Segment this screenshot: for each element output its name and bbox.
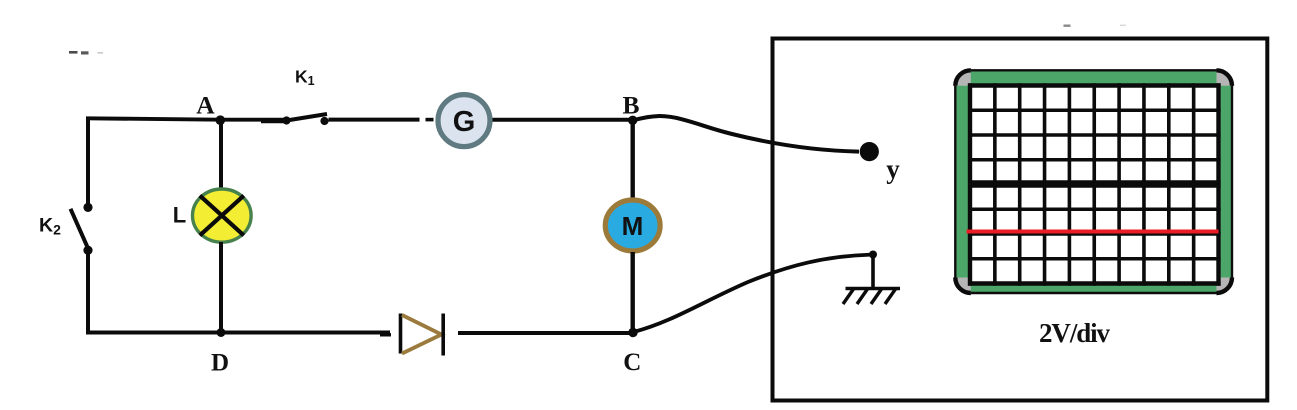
motor M body: [605, 200, 660, 251]
diode triangle: [402, 315, 442, 354]
bezel gray corner bottom-left: [955, 278, 971, 294]
wire K1 to G gap: [329, 118, 420, 122]
wire C to ground terminal: [634, 255, 872, 332]
scope trace red line: [967, 229, 1219, 233]
svg-text:K1: K1: [295, 66, 315, 88]
ground hatch 4: [885, 289, 896, 304]
node C dot: [628, 328, 637, 337]
bezel corner arc top-right: [1217, 70, 1233, 86]
bezel gray corner bottom-right: [1217, 278, 1233, 294]
bezel gray corner top-left: [955, 70, 971, 86]
lamp L body: [193, 189, 252, 242]
svg-text:M: M: [622, 211, 644, 241]
wire dash before G: [426, 118, 434, 122]
bezel gray corner top-right: [1217, 70, 1233, 86]
lamp L cross line 2: [200, 196, 244, 236]
svg-text:D: D: [211, 349, 229, 376]
wire diode to C: [458, 331, 634, 335]
switch K1 lever: [287, 114, 328, 121]
wire overlap blob left of K1: [261, 120, 284, 123]
node D dot: [217, 328, 226, 337]
svg-text:C: C: [623, 349, 641, 376]
switch K1 right dot: [320, 117, 328, 125]
bezel corner arc bottom-right: [1217, 278, 1233, 294]
svg-text:K2: K2: [39, 214, 61, 237]
wire B to y terminal: [633, 116, 859, 152]
galvanometer G: [438, 95, 490, 147]
scope screen bezel (green with gray corners): [955, 70, 1232, 293]
wire lamp down to D: [219, 242, 223, 334]
bezel corner arc bottom-left: [955, 278, 971, 294]
oscilloscope box: [773, 39, 1268, 401]
wire motor down to C: [631, 252, 635, 334]
svg-text:A: A: [196, 90, 215, 119]
wire G to B: [493, 118, 635, 122]
ground stem: [871, 255, 875, 289]
ground hatch 1: [843, 289, 854, 304]
wire stub blob left of diode: [380, 333, 391, 336]
wire bottom: left corner to diode: [86, 331, 390, 335]
switch K2 bottom dot: [83, 246, 92, 255]
ground terminal dot: [869, 251, 877, 259]
screen grid lines: [968, 83, 1221, 285]
wire A down to lamp: [219, 120, 223, 189]
node B dot: [628, 116, 637, 125]
terminal y: [860, 142, 879, 161]
svg-text:G: G: [453, 106, 476, 138]
diode left bar: [399, 314, 403, 354]
svg-text:L: L: [173, 202, 186, 227]
wire B down to motor: [631, 120, 635, 199]
wire left vertical upper: [86, 117, 90, 207]
wire top: A-left corner to K1: [86, 118, 284, 119]
diode cathode bar: [441, 314, 445, 356]
switch K2 top dot: [83, 203, 92, 212]
lamp L cross line 1: [200, 196, 244, 236]
smudge artifact top-left: [69, 51, 103, 55]
screen grid background: [968, 84, 1221, 286]
ground hatch 2: [857, 289, 868, 304]
wire left vertical lower: [86, 250, 90, 334]
switch K2 lever: [71, 209, 89, 249]
ground bar: [846, 287, 901, 290]
svg-text:B: B: [622, 91, 639, 120]
svg-text:2V/div: 2V/div: [1039, 318, 1111, 348]
svg-text:y: y: [886, 154, 900, 184]
node A dot: [216, 115, 226, 125]
ground hatch 3: [871, 289, 882, 304]
switch K1 pivot dot: [282, 116, 290, 124]
smudge artifact top-right: [1064, 25, 1127, 27]
bezel corner arc top-left: [955, 70, 971, 86]
